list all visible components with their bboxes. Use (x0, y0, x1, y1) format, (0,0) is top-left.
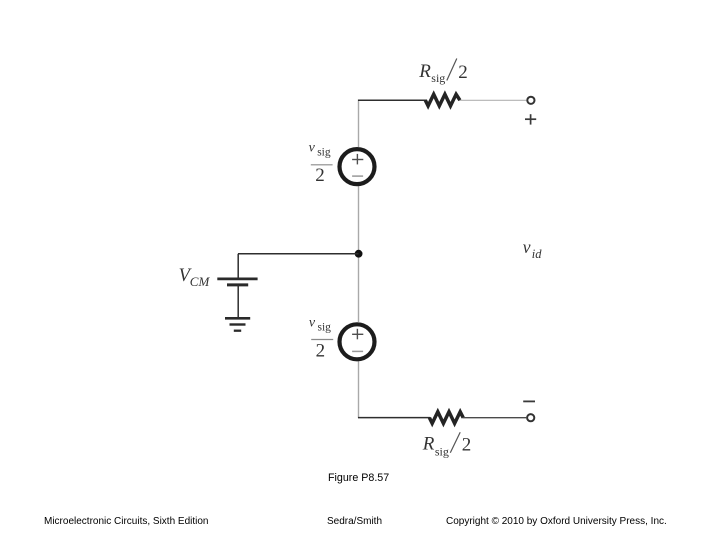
resistor Rsig/2 (bottom) (429, 412, 463, 424)
svg-text:Microelectronic Circuits, Sixt: Microelectronic Circuits, Sixth Edition (44, 516, 209, 527)
wire: vertical from top corner down to top source (358, 100, 360, 148)
svg-text:Sedra/Smith: Sedra/Smith (327, 516, 382, 527)
wire: top horizontal from corner to resistor (358, 99, 427, 101)
svg-text:sig: sig (318, 322, 332, 334)
wire: bottom horizontal from corner to resistor (358, 417, 430, 419)
label + (output polarity top) (525, 114, 536, 124)
svg-text:R: R (418, 61, 431, 82)
node: center junction dot (355, 250, 363, 258)
svg-text:sig: sig (431, 71, 445, 85)
resistor Rsig/2 (top) (425, 94, 460, 106)
svg-text:CM: CM (190, 274, 211, 289)
label VCM (179, 266, 211, 289)
svg-text:sig: sig (317, 146, 331, 158)
wire: bottom right from resistor to terminal (463, 417, 527, 419)
wire: top right from resistor to terminal (460, 99, 527, 101)
source vsig/2 (bottom) (340, 324, 375, 359)
terminal + (top right, open circle) (527, 97, 534, 104)
label - (output polarity bottom) (523, 400, 535, 402)
label Rsig/2 (bottom) (422, 432, 472, 458)
label vsig/2 (bottom) (309, 316, 333, 362)
label vsig/2 (top) (309, 140, 333, 186)
svg-text:v: v (309, 316, 316, 331)
wire: vertical from corner down to battery (237, 254, 239, 278)
wire: vertical from battery down to ground (237, 285, 239, 317)
ground (225, 318, 250, 330)
wire: vertical from center node down to bottom source (358, 255, 360, 322)
source vsig/2 (top) (340, 149, 375, 184)
svg-text:sig: sig (435, 444, 449, 458)
battery VCM (217, 279, 257, 285)
terminal - (bottom right, open circle) (527, 414, 534, 421)
svg-text:Figure P8.57: Figure P8.57 (328, 472, 389, 484)
svg-text:Copyright © 2010 by Oxford Uni: Copyright © 2010 by Oxford University Pr… (446, 516, 667, 527)
label vid (523, 237, 542, 261)
wire: vertical from top source down to center node (358, 186, 360, 253)
wire: horizontal from node to VCM branch (238, 253, 359, 255)
svg-text:2: 2 (462, 434, 472, 455)
svg-text:R: R (422, 434, 435, 455)
svg-text:2: 2 (458, 62, 468, 83)
svg-text:v: v (309, 140, 316, 155)
svg-text:id: id (532, 247, 542, 261)
wire: vertical from bottom source down to bottom corner (358, 361, 360, 419)
svg-text:2: 2 (315, 165, 325, 186)
label Rsig/2 (top) (418, 59, 468, 86)
svg-text:2: 2 (316, 341, 326, 362)
svg-text:v: v (523, 237, 531, 257)
